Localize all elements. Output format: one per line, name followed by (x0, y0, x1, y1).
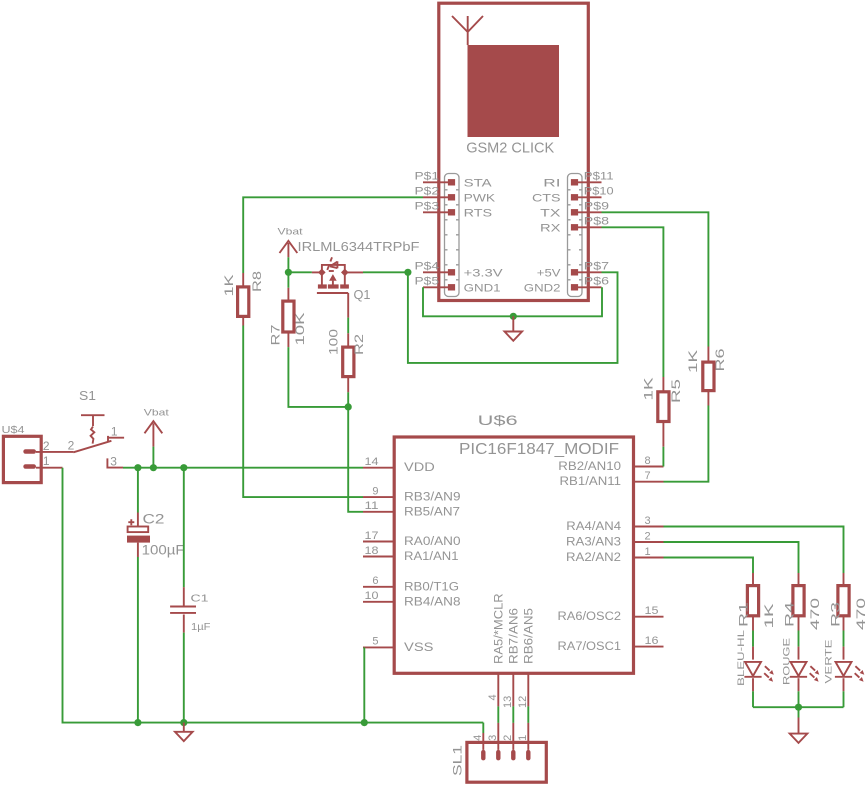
svg-text:CTS: CTS (532, 192, 561, 204)
svg-text:RB5/AN7: RB5/AN7 (404, 506, 460, 518)
svg-text:RA1/AN1: RA1/AN1 (404, 551, 459, 563)
wire R7 bottom / R2 bottom to junction (288, 347, 348, 407)
svg-text:RB6/AN5: RB6/AN5 (524, 608, 536, 664)
wire S1 pin3 to PIC VDD (Vbat net) (123, 467, 363, 469)
svg-text:P$2: P$2 (415, 186, 440, 198)
pin 5 VSS (363, 636, 434, 654)
svg-text:2: 2 (68, 439, 75, 453)
wire C1 bottom to ground bus (183, 633, 185, 723)
svg-text:RB7/AN6: RB7/AN6 (509, 608, 521, 664)
svg-text:8: 8 (645, 455, 651, 467)
svg-text:1: 1 (111, 424, 118, 438)
resistor R3 (470) (829, 573, 868, 631)
wire VSS to ground bus (363, 647, 365, 722)
junction Vbat arrow (150, 464, 157, 471)
resistor R2 (100) (327, 329, 367, 393)
ground stub LEDs (798, 718, 800, 734)
pin 14 VDD (363, 456, 435, 474)
pin 12 RB6/AN5 (bottom) (517, 608, 536, 708)
wire C2 top (137, 468, 139, 513)
pin P$10 CTS (532, 186, 614, 205)
svg-text:P$4: P$4 (415, 261, 440, 273)
svg-text:TX: TX (540, 207, 561, 219)
wire PIC pin 2 to R4 (664, 542, 799, 573)
svg-text:15: 15 (645, 605, 659, 617)
junction on GND loop (510, 313, 517, 320)
svg-text:4: 4 (472, 735, 484, 741)
wire PIC pin4 to SL1 pin3 (497, 706, 499, 750)
wire net +5V loop from P$7 to Q1 drain (363, 272, 618, 363)
svg-text:R2: R2 (352, 334, 366, 355)
svg-text:5: 5 (372, 636, 378, 648)
svg-text:RI: RI (543, 177, 560, 189)
supply Vbat (near Q1) (278, 227, 303, 258)
svg-text:1K: 1K (222, 275, 236, 297)
pin P$7 +5V (537, 261, 609, 280)
resistor R8 (1K) (222, 271, 264, 326)
svg-text:1: 1 (517, 735, 529, 741)
ground symbol bottom left (175, 732, 193, 741)
svg-text:2: 2 (645, 530, 651, 542)
svg-text:P$5: P$5 (415, 276, 440, 288)
wire PIC pin12 to SL1 pin1 (527, 706, 529, 750)
pin 15 RA6/OSC2 (558, 605, 664, 623)
wire LED ROUGE cathode down (798, 691, 800, 707)
svg-text:RB4/AN8: RB4/AN8 (404, 596, 461, 608)
wire U$4 pin2 to S1 (36, 451, 73, 453)
svg-text:470: 470 (808, 597, 822, 630)
svg-text:C1: C1 (191, 593, 209, 605)
svg-text:+5V: +5V (537, 267, 561, 279)
svg-text:RA2/AN2: RA2/AN2 (566, 552, 621, 564)
svg-text:RA0/AN0: RA0/AN0 (404, 536, 461, 548)
svg-text:R6: R6 (713, 348, 727, 371)
svg-text:P$11: P$11 (584, 171, 614, 183)
wire LED cathode bus (753, 707, 844, 717)
IC U$6 PIC16F1847_MODIF box (394, 413, 633, 673)
svg-text:R3: R3 (829, 601, 843, 627)
pin P$9 TX (540, 201, 609, 220)
wire R5 bottom to PIC pin 8 (662, 447, 664, 467)
wire R4 to LED ROUGE (798, 631, 800, 647)
pin 16 RA7/OSC1 (558, 635, 664, 653)
wire C2 bottom to ground bus (137, 557, 139, 723)
antenna symbol (452, 16, 483, 45)
wire junction to Q1 source (288, 271, 312, 273)
svg-text:RA4/AN4: RA4/AN4 (566, 521, 621, 533)
ground stub under module (512, 316, 514, 331)
svg-text:VSS: VSS (404, 642, 434, 654)
svg-text:RX: RX (540, 222, 561, 234)
svg-text:10K: 10K (293, 313, 307, 346)
LED ROUGE (782, 638, 820, 691)
ground symbol under module (505, 332, 523, 341)
svg-text:GSM2 CLICK: GSM2 CLICK (466, 140, 554, 157)
svg-text:1µF: 1µF (191, 621, 211, 633)
wire U$4 pin1 stub (36, 467, 63, 469)
pin P$1 STA (415, 171, 493, 190)
wire junction down to PIC pin 11 (348, 407, 363, 512)
junction C1 top (180, 464, 187, 471)
pin 6 RB0/T1G (363, 575, 459, 593)
wire net PWK from P$2 to R8 (243, 197, 423, 273)
svg-text:IRLML6344TRPbF: IRLML6344TRPbF (298, 239, 420, 254)
svg-text:16: 16 (645, 635, 659, 647)
supply Vbat (near S1) (144, 408, 169, 468)
svg-text:GND1: GND1 (464, 282, 501, 294)
svg-text:18: 18 (365, 545, 379, 557)
resistor R7 (10K) (269, 288, 308, 347)
wire C1 top (183, 468, 185, 588)
svg-text:100µF: 100µF (142, 543, 185, 558)
wire PIC pin 3 to R3 (664, 527, 844, 574)
pin 10 RB4/AN8 (363, 590, 461, 608)
svg-text:VDD: VDD (404, 462, 435, 474)
svg-text:6: 6 (372, 575, 378, 587)
pin P$8 RX (540, 216, 609, 235)
svg-text:PIC16F1847_MODIF: PIC16F1847_MODIF (459, 441, 619, 458)
svg-text:1K: 1K (762, 604, 776, 629)
pin 3 RA4/AN4 (566, 515, 663, 533)
svg-text:1: 1 (43, 454, 50, 468)
svg-text:C2: C2 (143, 512, 165, 527)
svg-text:R8: R8 (250, 271, 264, 292)
svg-text:9: 9 (372, 485, 378, 497)
svg-text:RB0/T1G: RB0/T1G (404, 581, 459, 593)
junction R7/R2 gate net (345, 403, 352, 410)
svg-text:P$10: P$10 (584, 186, 614, 198)
svg-text:Vbat: Vbat (278, 227, 303, 238)
resistor R4 (470) (783, 573, 823, 631)
svg-text:RB1/AN11: RB1/AN11 (560, 476, 622, 488)
svg-text:VERTE: VERTE (824, 640, 835, 684)
wire LED BLEU cathode down (752, 691, 754, 707)
svg-text:STA: STA (464, 177, 493, 189)
svg-text:2: 2 (502, 735, 514, 741)
pin 18 RA1/AN1 (363, 545, 459, 563)
svg-text:P$7: P$7 (584, 261, 609, 273)
connector U$4 (battery) (2, 424, 50, 483)
svg-text:PWK: PWK (464, 192, 496, 204)
pin 1 RA2/AN2 (566, 546, 664, 564)
wire R1 to LED BLEU-HL (752, 631, 754, 647)
resistor R1 (1K) (737, 573, 777, 631)
svg-text:P$3: P$3 (415, 201, 440, 213)
svg-text:14: 14 (365, 456, 379, 468)
svg-text:RB3/AN9: RB3/AN9 (404, 492, 461, 504)
wire net RX from P$8 to R5 (602, 227, 664, 377)
svg-text:1K: 1K (642, 378, 656, 401)
pin header outline right (568, 174, 583, 297)
svg-text:1K: 1K (686, 350, 700, 373)
wire LED VERTE cathode down (843, 691, 845, 707)
capacitor C1 (1uF) (170, 587, 210, 633)
svg-text:R1: R1 (737, 601, 751, 627)
svg-text:RTS: RTS (464, 207, 493, 219)
LED VERTE (824, 640, 865, 692)
pin header outline left (445, 174, 460, 297)
svg-text:11: 11 (365, 500, 379, 512)
junction +5V at P$4 (404, 269, 411, 276)
pin P$11 RI (543, 171, 613, 190)
wire SL1 pin4 to ground bus (482, 723, 484, 750)
svg-text:P$8: P$8 (584, 216, 609, 228)
junction Vbat / R7 / Q1 source (285, 269, 292, 276)
svg-text:RA6/OSC2: RA6/OSC2 (558, 611, 622, 623)
junction C2 top (134, 464, 141, 471)
pin P$3 RTS (415, 201, 493, 220)
pin 7 RB1/AN11 (560, 470, 664, 488)
svg-text:R7: R7 (269, 324, 283, 345)
svg-text:RA3/AN3: RA3/AN3 (566, 537, 621, 549)
svg-text:4: 4 (487, 694, 499, 700)
pin P$6 GND2 (524, 276, 609, 295)
junction LED bus (795, 704, 802, 711)
junction C2 bottom (134, 719, 141, 726)
pin 17 RA0/AN0 (363, 530, 461, 548)
svg-text:S1: S1 (79, 388, 96, 403)
switch S1 (68, 388, 125, 468)
wire U$4 pin1 down to ground bus (63, 468, 484, 723)
svg-text:470: 470 (854, 597, 868, 630)
svg-text:1: 1 (645, 546, 651, 558)
resistor R5 (1K) (642, 377, 684, 447)
junction VSS on ground bus (361, 719, 368, 726)
wire net TX from P$9 to R6 (602, 212, 709, 346)
svg-text:GND2: GND2 (524, 282, 561, 294)
wire Q1 gate to R2 (347, 318, 349, 334)
svg-text:3: 3 (110, 454, 117, 468)
wire R3 to LED VERTE (843, 631, 845, 647)
pin P$5 GND1 (415, 276, 501, 295)
pin 2 RA3/AN3 (566, 530, 664, 548)
pin 13 RB7/AN6 (bottom) (502, 608, 521, 708)
pin P$2 PWK (415, 186, 496, 205)
wire PIC pin 1 to R1 (664, 558, 754, 574)
junction C1 bottom / ground symbol stub (180, 719, 187, 726)
wire net GND1-GND2 loop under module (423, 287, 602, 316)
svg-text:SL1: SL1 (451, 745, 465, 776)
LED BLEU-HL (736, 630, 774, 691)
wire PIC pin13 to SL1 pin2 (512, 706, 514, 750)
svg-text:Vbat: Vbat (144, 408, 169, 419)
svg-text:13: 13 (502, 696, 514, 708)
svg-text:RA5/*MCLR: RA5/*MCLR (494, 593, 506, 664)
svg-text:7: 7 (645, 470, 651, 482)
pin P$4 +3.3V (415, 261, 504, 280)
svg-text:RB2/AN10: RB2/AN10 (558, 461, 621, 473)
pin 11 RB5/AN7 (363, 500, 460, 518)
svg-text:17: 17 (365, 530, 379, 542)
svg-text:P$9: P$9 (584, 201, 609, 213)
pin 4 RA5/*MCLR (bottom) (487, 593, 506, 706)
ground symbol LEDs (790, 734, 808, 743)
wire R8 bottom to PIC pin 9 (243, 326, 363, 498)
svg-text:100: 100 (327, 329, 341, 355)
svg-text:+3.3V: +3.3V (464, 267, 504, 279)
svg-text:3: 3 (487, 735, 499, 741)
GSM module body (filled square) (468, 45, 560, 137)
module U$5 GSM2 CLICK outline (439, 3, 589, 300)
capacitor C2 (100uF polarized) (127, 512, 185, 558)
svg-text:Q1: Q1 (354, 287, 371, 302)
svg-text:RA7/OSC1: RA7/OSC1 (558, 641, 622, 653)
svg-text:10: 10 (365, 590, 379, 602)
resistor R6 (1K) (686, 347, 727, 406)
pin 8 RB2/AN10 (558, 455, 663, 473)
svg-text:P$1: P$1 (415, 171, 440, 183)
svg-text:U$4: U$4 (2, 424, 25, 436)
svg-text:U$6: U$6 (478, 413, 518, 428)
wire Vbat arrow to junction (287, 257, 289, 272)
svg-text:P$6: P$6 (584, 276, 609, 288)
svg-text:3: 3 (645, 515, 651, 527)
svg-text:R5: R5 (669, 378, 683, 403)
transistor Q1 IRLML6344TRPbF (298, 239, 420, 318)
ground stub bottom left (183, 723, 185, 732)
connector SL1 (451, 735, 547, 782)
wire R6 bottom to PIC pin 7 (664, 406, 709, 482)
svg-text:R4: R4 (783, 601, 797, 627)
pin 9 RB3/AN9 (363, 485, 461, 503)
svg-text:12: 12 (517, 696, 529, 708)
wire junction down to R7 (287, 272, 289, 288)
